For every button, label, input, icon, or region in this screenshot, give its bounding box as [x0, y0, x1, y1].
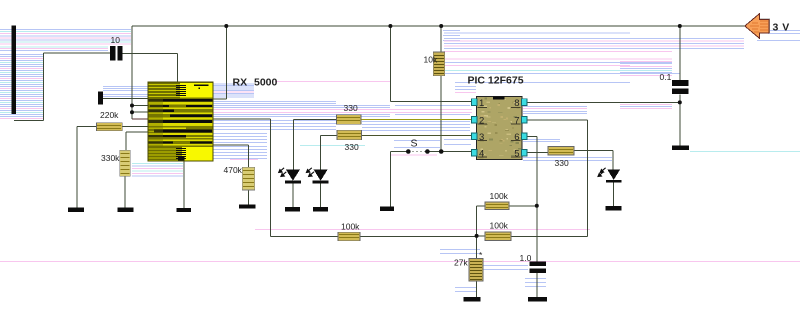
svg-text:5: 5 — [514, 149, 519, 160]
svg-text:220k: 220k — [100, 110, 119, 120]
svg-text:330k: 330k — [101, 153, 120, 163]
svg-text:RX: RX — [233, 77, 248, 89]
svg-text:4: 4 — [479, 149, 484, 160]
svg-text:470k: 470k — [224, 165, 243, 175]
svg-text:330: 330 — [345, 142, 359, 152]
svg-text:330: 330 — [344, 103, 358, 113]
svg-text:1.0: 1.0 — [520, 253, 532, 263]
svg-text:0.1: 0.1 — [660, 72, 672, 82]
svg-text:6: 6 — [514, 132, 519, 143]
svg-text:8: 8 — [514, 98, 519, 109]
svg-text:100k: 100k — [490, 191, 509, 201]
svg-text:2: 2 — [479, 116, 484, 127]
svg-text:27k: 27k — [454, 258, 468, 268]
svg-text:10: 10 — [111, 35, 121, 45]
svg-text:1: 1 — [479, 98, 484, 109]
svg-text:3: 3 — [479, 132, 484, 143]
svg-text:10k: 10k — [424, 55, 438, 65]
svg-text:100k: 100k — [490, 221, 509, 231]
svg-text:S: S — [411, 138, 418, 150]
svg-text:100k: 100k — [341, 222, 360, 232]
svg-text:3 V: 3 V — [773, 22, 790, 34]
svg-text:330: 330 — [555, 158, 569, 168]
svg-text:5000: 5000 — [254, 77, 278, 89]
svg-text:PIC 12F675: PIC 12F675 — [468, 75, 524, 87]
svg-text:7: 7 — [514, 116, 519, 127]
